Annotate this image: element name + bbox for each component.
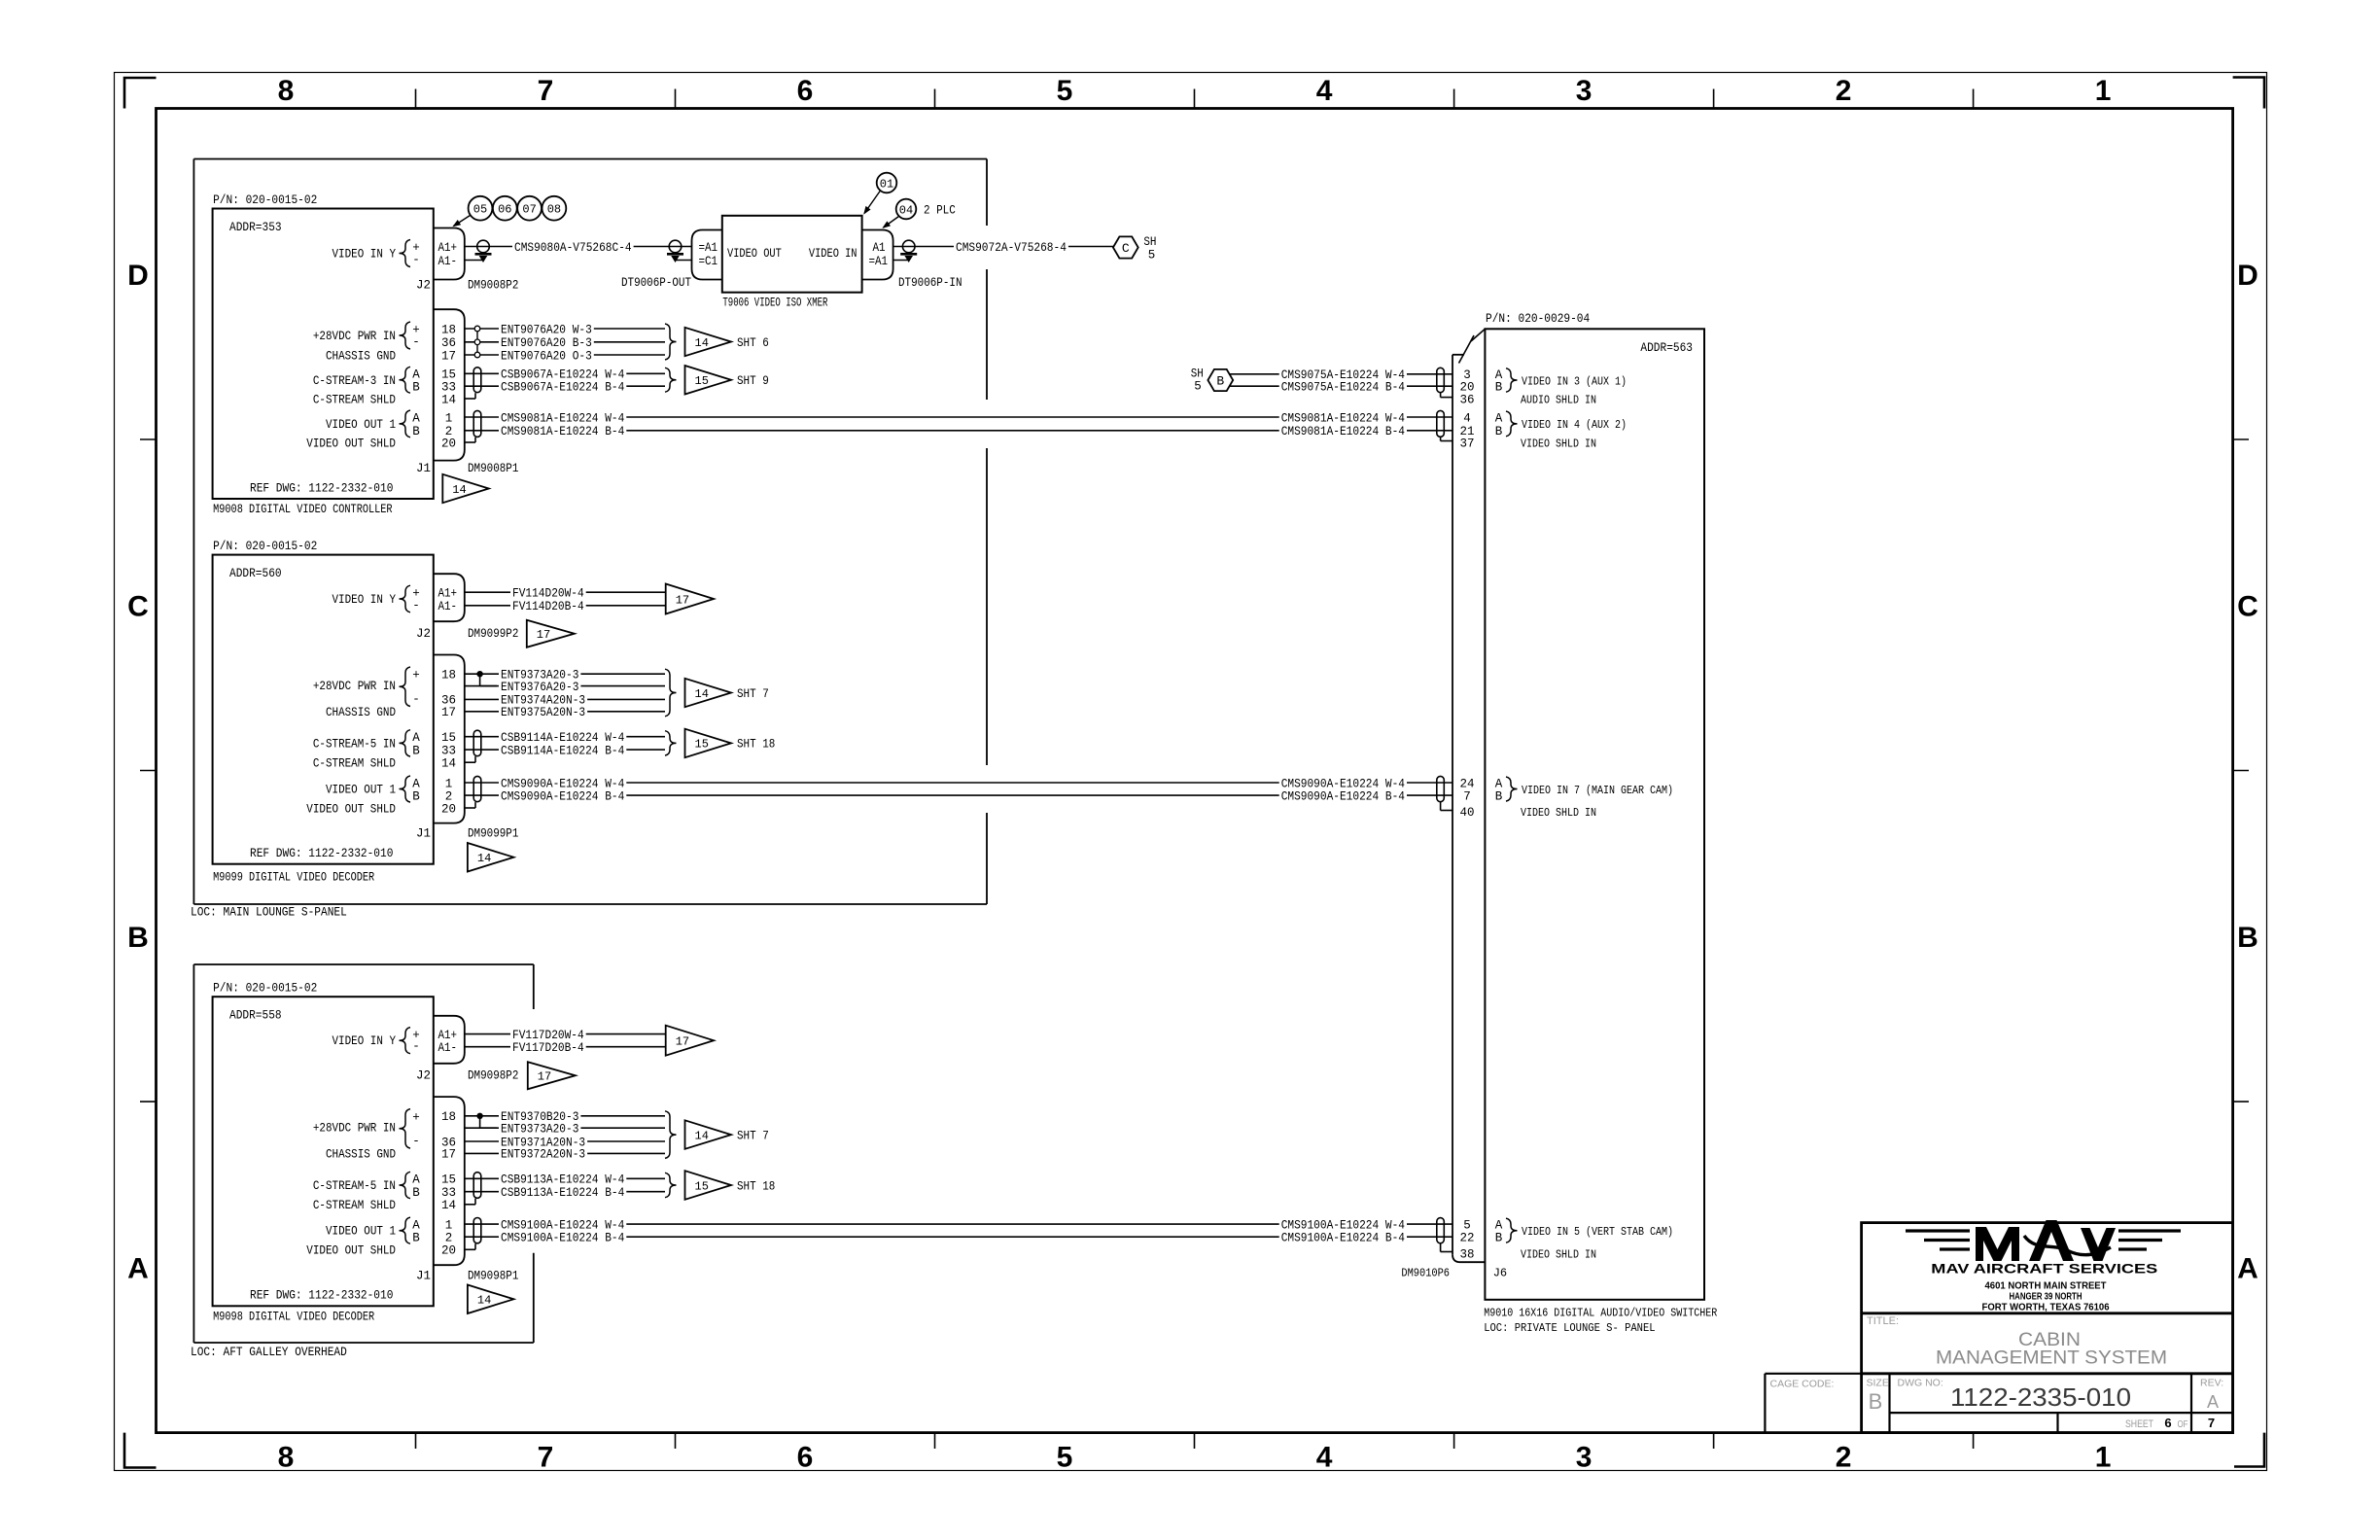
svg-text:06: 06 (498, 203, 511, 217)
svg-text:A: A (412, 368, 420, 382)
svg-text:VIDEO OUT 1: VIDEO OUT 1 (326, 1225, 396, 1239)
svg-text:CMS9080A-V75268C-4: CMS9080A-V75268C-4 (514, 241, 632, 255)
svg-text:1: 1 (2095, 1442, 2112, 1474)
svg-text:VIDEO SHLD IN: VIDEO SHLD IN (1521, 1247, 1596, 1261)
svg-text:AUDIO SHLD IN: AUDIO SHLD IN (1521, 393, 1596, 406)
svg-text:15: 15 (441, 1173, 456, 1187)
svg-text:VIDEO SHLD IN: VIDEO SHLD IN (1521, 806, 1596, 820)
svg-text:C: C (2237, 590, 2258, 622)
svg-text:5: 5 (1148, 249, 1156, 262)
svg-text:15: 15 (695, 374, 709, 388)
svg-text:CMS9081A-E10224 W-4: CMS9081A-E10224 W-4 (1281, 411, 1405, 425)
svg-text:VIDEO IN Y: VIDEO IN Y (332, 248, 397, 262)
svg-text:38: 38 (1459, 1247, 1474, 1261)
svg-text:37: 37 (1459, 437, 1474, 451)
svg-text:CMS9100A-E10224 B-4: CMS9100A-E10224 B-4 (1281, 1232, 1405, 1245)
svg-text:ENT9372A20N-3: ENT9372A20N-3 (501, 1148, 585, 1162)
svg-text:B: B (1495, 1232, 1503, 1245)
svg-text:OF: OF (2178, 1419, 2188, 1430)
svg-text:01: 01 (880, 177, 893, 191)
svg-text:VIDEO IN: VIDEO IN (809, 247, 857, 261)
svg-text:D: D (127, 260, 149, 292)
svg-text:FORT WORTH, TEXAS 76106: FORT WORTH, TEXAS 76106 (1982, 1302, 2110, 1313)
svg-text:CMS9081A-E10224 B-4: CMS9081A-E10224 B-4 (501, 425, 624, 438)
svg-text:36: 36 (1459, 393, 1474, 406)
svg-text:CMS9090A-E10224 W-4: CMS9090A-E10224 W-4 (1281, 777, 1405, 790)
svg-text:5: 5 (1194, 380, 1202, 394)
svg-text:J2: J2 (416, 1068, 431, 1082)
svg-text:A: A (2237, 1252, 2258, 1284)
svg-text:04: 04 (899, 203, 913, 217)
svg-text:6: 6 (797, 1442, 814, 1474)
svg-text:VIDEO IN Y: VIDEO IN Y (332, 593, 397, 607)
svg-text:DM9098P2: DM9098P2 (468, 1068, 518, 1082)
svg-text:C-STREAM-5 IN: C-STREAM-5 IN (313, 1179, 396, 1193)
svg-text:SHT 18: SHT 18 (737, 738, 775, 752)
svg-text:CHASSIS GND: CHASSIS GND (326, 349, 396, 363)
svg-text:VIDEO OUT 1: VIDEO OUT 1 (326, 418, 396, 432)
svg-text:18: 18 (441, 1110, 456, 1124)
svg-text:SH: SH (1191, 367, 1204, 381)
svg-text:DT9006P-OUT: DT9006P-OUT (621, 276, 691, 290)
svg-text:A: A (412, 731, 420, 745)
svg-text:+: + (412, 1110, 420, 1124)
svg-text:4: 4 (1463, 411, 1471, 425)
svg-text:ADDR=558: ADDR=558 (229, 1009, 282, 1023)
svg-text:-: - (412, 1040, 420, 1054)
svg-text:D: D (2237, 260, 2258, 292)
svg-text:TITLE:: TITLE: (1867, 1315, 1899, 1327)
svg-text:A1: A1 (873, 241, 886, 255)
svg-text:DM9010P6: DM9010P6 (1401, 1267, 1450, 1280)
svg-text:VIDEO SHLD IN: VIDEO SHLD IN (1521, 437, 1596, 451)
svg-text:5: 5 (1463, 1218, 1471, 1232)
svg-text:DT9006P-IN: DT9006P-IN (898, 276, 962, 290)
svg-text:05: 05 (473, 203, 487, 217)
svg-text:J1: J1 (416, 827, 431, 841)
svg-text:B: B (1495, 381, 1503, 395)
svg-text:20: 20 (441, 437, 456, 450)
svg-text:VIDEO IN 5 (VERT STAB CAM): VIDEO IN 5 (VERT STAB CAM) (1522, 1225, 1673, 1239)
svg-text:14: 14 (441, 393, 456, 406)
svg-text:18: 18 (441, 669, 456, 682)
svg-text:C-STREAM-5 IN: C-STREAM-5 IN (313, 737, 396, 751)
svg-text:5: 5 (1057, 75, 1073, 107)
svg-text:ENT9375A20N-3: ENT9375A20N-3 (501, 706, 585, 719)
svg-text:3: 3 (1576, 1442, 1592, 1474)
svg-text:M9008 DIGITAL VIDEO CONTROLLER: M9008 DIGITAL VIDEO CONTROLLER (213, 503, 393, 516)
svg-text:4: 4 (1316, 1442, 1333, 1474)
svg-text:1: 1 (445, 411, 453, 425)
svg-text:M9099 DIGITAL VIDEO DECODER: M9099 DIGITAL VIDEO DECODER (213, 871, 374, 885)
svg-text:J2: J2 (416, 627, 431, 641)
svg-text:VIDEO IN 3 (AUX 1): VIDEO IN 3 (AUX 1) (1522, 374, 1627, 388)
svg-text:J2: J2 (416, 279, 431, 293)
svg-text:1: 1 (445, 1218, 453, 1232)
svg-text:ADDR=560: ADDR=560 (229, 567, 282, 580)
svg-text:J6: J6 (1493, 1267, 1507, 1280)
svg-text:P/N: 020-0029-04: P/N: 020-0029-04 (1486, 312, 1590, 326)
svg-text:15: 15 (441, 368, 456, 382)
svg-text:17: 17 (441, 1148, 456, 1162)
svg-text:7: 7 (538, 1442, 554, 1474)
svg-text:SHT 18: SHT 18 (737, 1179, 775, 1193)
svg-text:SHT 7: SHT 7 (737, 1129, 769, 1142)
svg-text:REF DWG: 1122-2332-010: REF DWG: 1122-2332-010 (250, 847, 393, 860)
svg-text:REF DWG: 1122-2332-010: REF DWG: 1122-2332-010 (250, 481, 393, 495)
svg-text:-: - (412, 692, 420, 706)
svg-text:LOC: PRIVATE LOUNGE S- PANEL: LOC: PRIVATE LOUNGE S- PANEL (1484, 1321, 1655, 1335)
svg-text:C-STREAM SHLD: C-STREAM SHLD (313, 1199, 396, 1212)
svg-text:CHASSIS GND: CHASSIS GND (326, 1148, 396, 1162)
svg-text:J1: J1 (416, 1269, 431, 1282)
svg-text:ENT9076A20 O-3: ENT9076A20 O-3 (501, 349, 592, 363)
svg-text:A1+: A1+ (438, 587, 458, 601)
svg-text:+28VDC PWR IN: +28VDC PWR IN (313, 680, 396, 693)
svg-text:M9010 16X16 DIGITAL AUDIO/VIDE: M9010 16X16 DIGITAL AUDIO/VIDEO SWITCHER (1484, 1307, 1717, 1320)
svg-text:VIDEO OUT SHLD: VIDEO OUT SHLD (306, 1244, 396, 1258)
svg-text:CSB9067A-E10224 W-4: CSB9067A-E10224 W-4 (501, 368, 624, 382)
svg-text:LOC: MAIN LOUNGE S-PANEL: LOC: MAIN LOUNGE S-PANEL (191, 906, 347, 920)
svg-text:6: 6 (797, 75, 814, 107)
svg-text:CMS9075A-E10224 B-4: CMS9075A-E10224 B-4 (1281, 381, 1405, 395)
svg-text:DWG NO:: DWG NO: (1898, 1378, 1943, 1389)
svg-text:ADDR=563: ADDR=563 (1640, 341, 1693, 355)
svg-text:P/N: 020-0015-02: P/N: 020-0015-02 (213, 982, 317, 996)
svg-text:8: 8 (278, 1442, 295, 1474)
svg-text:FV117D20B-4: FV117D20B-4 (512, 1041, 584, 1055)
svg-text:A: A (1495, 411, 1503, 425)
svg-text:2 PLC: 2 PLC (924, 204, 956, 218)
svg-text:C: C (127, 590, 149, 622)
svg-text:DM9098P1: DM9098P1 (468, 1269, 518, 1282)
svg-text:A: A (1495, 777, 1503, 790)
svg-text:T9006 VIDEO ISO XMER: T9006 VIDEO ISO XMER (722, 297, 827, 310)
svg-text:2: 2 (1836, 1442, 1852, 1474)
svg-text:REF DWG: 1122-2332-010: REF DWG: 1122-2332-010 (250, 1289, 393, 1303)
svg-text:B: B (127, 922, 149, 954)
svg-text:15: 15 (695, 738, 709, 752)
svg-text:A1+: A1+ (438, 1029, 458, 1042)
svg-text:A: A (412, 1173, 420, 1187)
svg-text:14: 14 (695, 336, 709, 350)
svg-text:1122-2335-010: 1122-2335-010 (1950, 1382, 2131, 1412)
svg-text:B: B (412, 1186, 420, 1200)
svg-text:17: 17 (538, 1070, 551, 1084)
svg-text:33: 33 (441, 744, 456, 757)
svg-text:-: - (412, 1135, 420, 1148)
svg-text:CMS9100A-E10224 W-4: CMS9100A-E10224 W-4 (501, 1218, 624, 1232)
svg-text:3: 3 (1576, 75, 1592, 107)
svg-text:C-STREAM-3 IN: C-STREAM-3 IN (313, 374, 396, 388)
svg-text:B: B (412, 381, 420, 395)
svg-text:ENT9376A20-3: ENT9376A20-3 (501, 681, 578, 694)
svg-text:VIDEO OUT 1: VIDEO OUT 1 (326, 784, 396, 797)
svg-text:A: A (1495, 1218, 1503, 1232)
svg-text:18: 18 (441, 323, 456, 336)
svg-text:2: 2 (445, 1232, 453, 1245)
svg-text:CMS9072A-V75268-4: CMS9072A-V75268-4 (956, 241, 1067, 255)
svg-text:SHEET: SHEET (2125, 1418, 2153, 1430)
svg-text:20: 20 (441, 802, 456, 816)
svg-text:B: B (412, 744, 420, 757)
svg-text:VIDEO IN 4 (AUX 2): VIDEO IN 4 (AUX 2) (1522, 418, 1627, 432)
svg-text:C-STREAM SHLD: C-STREAM SHLD (313, 393, 396, 406)
svg-text:14: 14 (477, 1294, 491, 1308)
svg-text:4: 4 (1316, 75, 1333, 107)
svg-text:=C1: =C1 (699, 255, 718, 268)
svg-text:A1-: A1- (438, 255, 458, 268)
svg-text:1: 1 (445, 777, 453, 790)
svg-text:ENT9076A20 W-3: ENT9076A20 W-3 (501, 323, 592, 336)
svg-text:DM9008P2: DM9008P2 (468, 279, 518, 293)
svg-text:REV:: REV: (2200, 1378, 2223, 1389)
svg-text:MAV AIRCRAFT SERVICES: MAV AIRCRAFT SERVICES (1931, 1261, 2157, 1277)
svg-text:=A1: =A1 (869, 255, 889, 268)
svg-text:-: - (412, 254, 420, 267)
svg-text:17: 17 (441, 706, 456, 719)
svg-text:1: 1 (2095, 75, 2112, 107)
svg-text:33: 33 (441, 1186, 456, 1200)
svg-text:B: B (1216, 374, 1224, 389)
svg-text:FV114D20B-4: FV114D20B-4 (512, 600, 584, 613)
svg-text:VIDEO IN Y: VIDEO IN Y (332, 1034, 397, 1048)
svg-text:LOC: AFT GALLEY OVERHEAD: LOC: AFT GALLEY OVERHEAD (191, 1346, 347, 1359)
svg-text:7: 7 (2208, 1416, 2215, 1430)
svg-text:CMS9081A-E10224 W-4: CMS9081A-E10224 W-4 (501, 411, 624, 425)
svg-text:CSB9113A-E10224 W-4: CSB9113A-E10224 W-4 (501, 1173, 624, 1187)
svg-text:17: 17 (537, 628, 550, 642)
svg-text:A: A (412, 777, 420, 790)
svg-text:14: 14 (452, 483, 466, 497)
svg-text:14: 14 (695, 687, 709, 701)
svg-text:SHT 7: SHT 7 (737, 687, 769, 701)
svg-text:2: 2 (1836, 75, 1852, 107)
svg-text:ENT9373A20-3: ENT9373A20-3 (501, 1123, 578, 1137)
svg-text:A: A (2207, 1392, 2219, 1412)
svg-text:DM9099P2: DM9099P2 (468, 627, 518, 641)
svg-text:14: 14 (477, 852, 491, 865)
svg-text:36: 36 (441, 336, 456, 350)
svg-text:CSB9113A-E10224 B-4: CSB9113A-E10224 B-4 (501, 1186, 624, 1200)
svg-text:6: 6 (2164, 1416, 2171, 1430)
svg-text:A: A (127, 1252, 149, 1284)
svg-text:CHASSIS GND: CHASSIS GND (326, 706, 396, 719)
svg-text:P/N: 020-0015-02: P/N: 020-0015-02 (213, 193, 317, 207)
svg-text:8: 8 (278, 75, 295, 107)
svg-text:P/N: 020-0015-02: P/N: 020-0015-02 (213, 540, 317, 553)
svg-text:B: B (2237, 922, 2258, 954)
svg-text:CMS9081A-E10224 B-4: CMS9081A-E10224 B-4 (1281, 425, 1405, 438)
svg-text:C: C (1122, 241, 1130, 256)
svg-text:+28VDC PWR IN: +28VDC PWR IN (313, 1122, 396, 1136)
svg-text:14: 14 (695, 1129, 709, 1142)
svg-text:40: 40 (1459, 806, 1474, 820)
svg-text:A1+: A1+ (438, 241, 458, 255)
svg-text:DM9099P1: DM9099P1 (468, 827, 518, 841)
svg-text:A1-: A1- (438, 1041, 458, 1055)
svg-text:CMS9090A-E10224 B-4: CMS9090A-E10224 B-4 (1281, 789, 1405, 803)
svg-text:=A1: =A1 (699, 241, 718, 255)
svg-text:A1-: A1- (438, 600, 458, 613)
svg-text:15: 15 (441, 731, 456, 745)
svg-text:B: B (1495, 425, 1503, 438)
svg-text:C-STREAM SHLD: C-STREAM SHLD (313, 757, 396, 771)
svg-text:ENT9076A20 B-3: ENT9076A20 B-3 (501, 336, 592, 350)
svg-text:CMS9090A-E10224 W-4: CMS9090A-E10224 W-4 (501, 777, 624, 790)
svg-text:B: B (1869, 1389, 1883, 1414)
svg-text:SHT 6: SHT 6 (737, 336, 769, 350)
svg-text:VIDEO IN 7 (MAIN GEAR CAM): VIDEO IN 7 (MAIN GEAR CAM) (1522, 784, 1673, 797)
svg-text:17: 17 (676, 1035, 689, 1049)
svg-text:17: 17 (441, 349, 456, 363)
svg-text:22: 22 (1459, 1232, 1474, 1245)
svg-text:SH: SH (1143, 235, 1156, 249)
svg-text:CMS9100A-E10224 W-4: CMS9100A-E10224 W-4 (1281, 1218, 1405, 1232)
svg-text:CAGE CODE:: CAGE CODE: (1770, 1379, 1835, 1390)
svg-text:ADDR=353: ADDR=353 (229, 221, 282, 234)
svg-text:FV117D20W-4: FV117D20W-4 (512, 1029, 584, 1042)
svg-text:FV114D20W-4: FV114D20W-4 (512, 587, 584, 601)
svg-text:15: 15 (695, 1179, 709, 1193)
svg-text:7: 7 (1463, 789, 1471, 803)
svg-text:+: + (412, 669, 420, 682)
svg-text:17: 17 (676, 593, 689, 607)
svg-text:A: A (412, 411, 420, 425)
svg-text:07: 07 (522, 203, 536, 217)
svg-text:MANAGEMENT SYSTEM: MANAGEMENT SYSTEM (1936, 1348, 2167, 1369)
svg-text:SIZE: SIZE (1867, 1378, 1889, 1389)
svg-text:2: 2 (445, 789, 453, 803)
svg-text:CSB9114A-E10224 W-4: CSB9114A-E10224 W-4 (501, 731, 624, 745)
svg-text:08: 08 (547, 203, 561, 217)
svg-text:J1: J1 (416, 462, 431, 475)
svg-text:CSB9114A-E10224 B-4: CSB9114A-E10224 B-4 (501, 744, 624, 757)
svg-text:20: 20 (441, 1244, 456, 1258)
svg-text:B: B (1495, 789, 1503, 803)
svg-text:VIDEO OUT: VIDEO OUT (727, 247, 782, 261)
svg-text:CMS9100A-E10224 B-4: CMS9100A-E10224 B-4 (501, 1232, 624, 1245)
svg-text:-: - (412, 335, 420, 349)
svg-text:CSB9067A-E10224 B-4: CSB9067A-E10224 B-4 (501, 381, 624, 395)
svg-text:A: A (412, 1218, 420, 1232)
svg-text:+28VDC PWR IN: +28VDC PWR IN (313, 330, 396, 343)
svg-text:-: - (412, 599, 420, 612)
svg-text:M9098 DIGITAL VIDEO DECODER: M9098 DIGITAL VIDEO DECODER (213, 1310, 374, 1323)
svg-text:B: B (412, 1232, 420, 1245)
svg-text:B: B (412, 425, 420, 438)
svg-text:DM9008P1: DM9008P1 (468, 462, 518, 475)
svg-text:24: 24 (1459, 777, 1474, 790)
svg-text:14: 14 (441, 757, 456, 771)
svg-text:SHT 9: SHT 9 (737, 374, 769, 388)
svg-text:20: 20 (1459, 381, 1474, 395)
svg-text:7: 7 (538, 75, 554, 107)
svg-text:14: 14 (441, 1199, 456, 1212)
svg-text:VIDEO OUT SHLD: VIDEO OUT SHLD (306, 437, 396, 450)
svg-text:5: 5 (1057, 1442, 1073, 1474)
svg-text:B: B (412, 789, 420, 803)
svg-text:VIDEO OUT SHLD: VIDEO OUT SHLD (306, 802, 396, 816)
svg-text:CMS9090A-E10224 B-4: CMS9090A-E10224 B-4 (501, 789, 624, 803)
